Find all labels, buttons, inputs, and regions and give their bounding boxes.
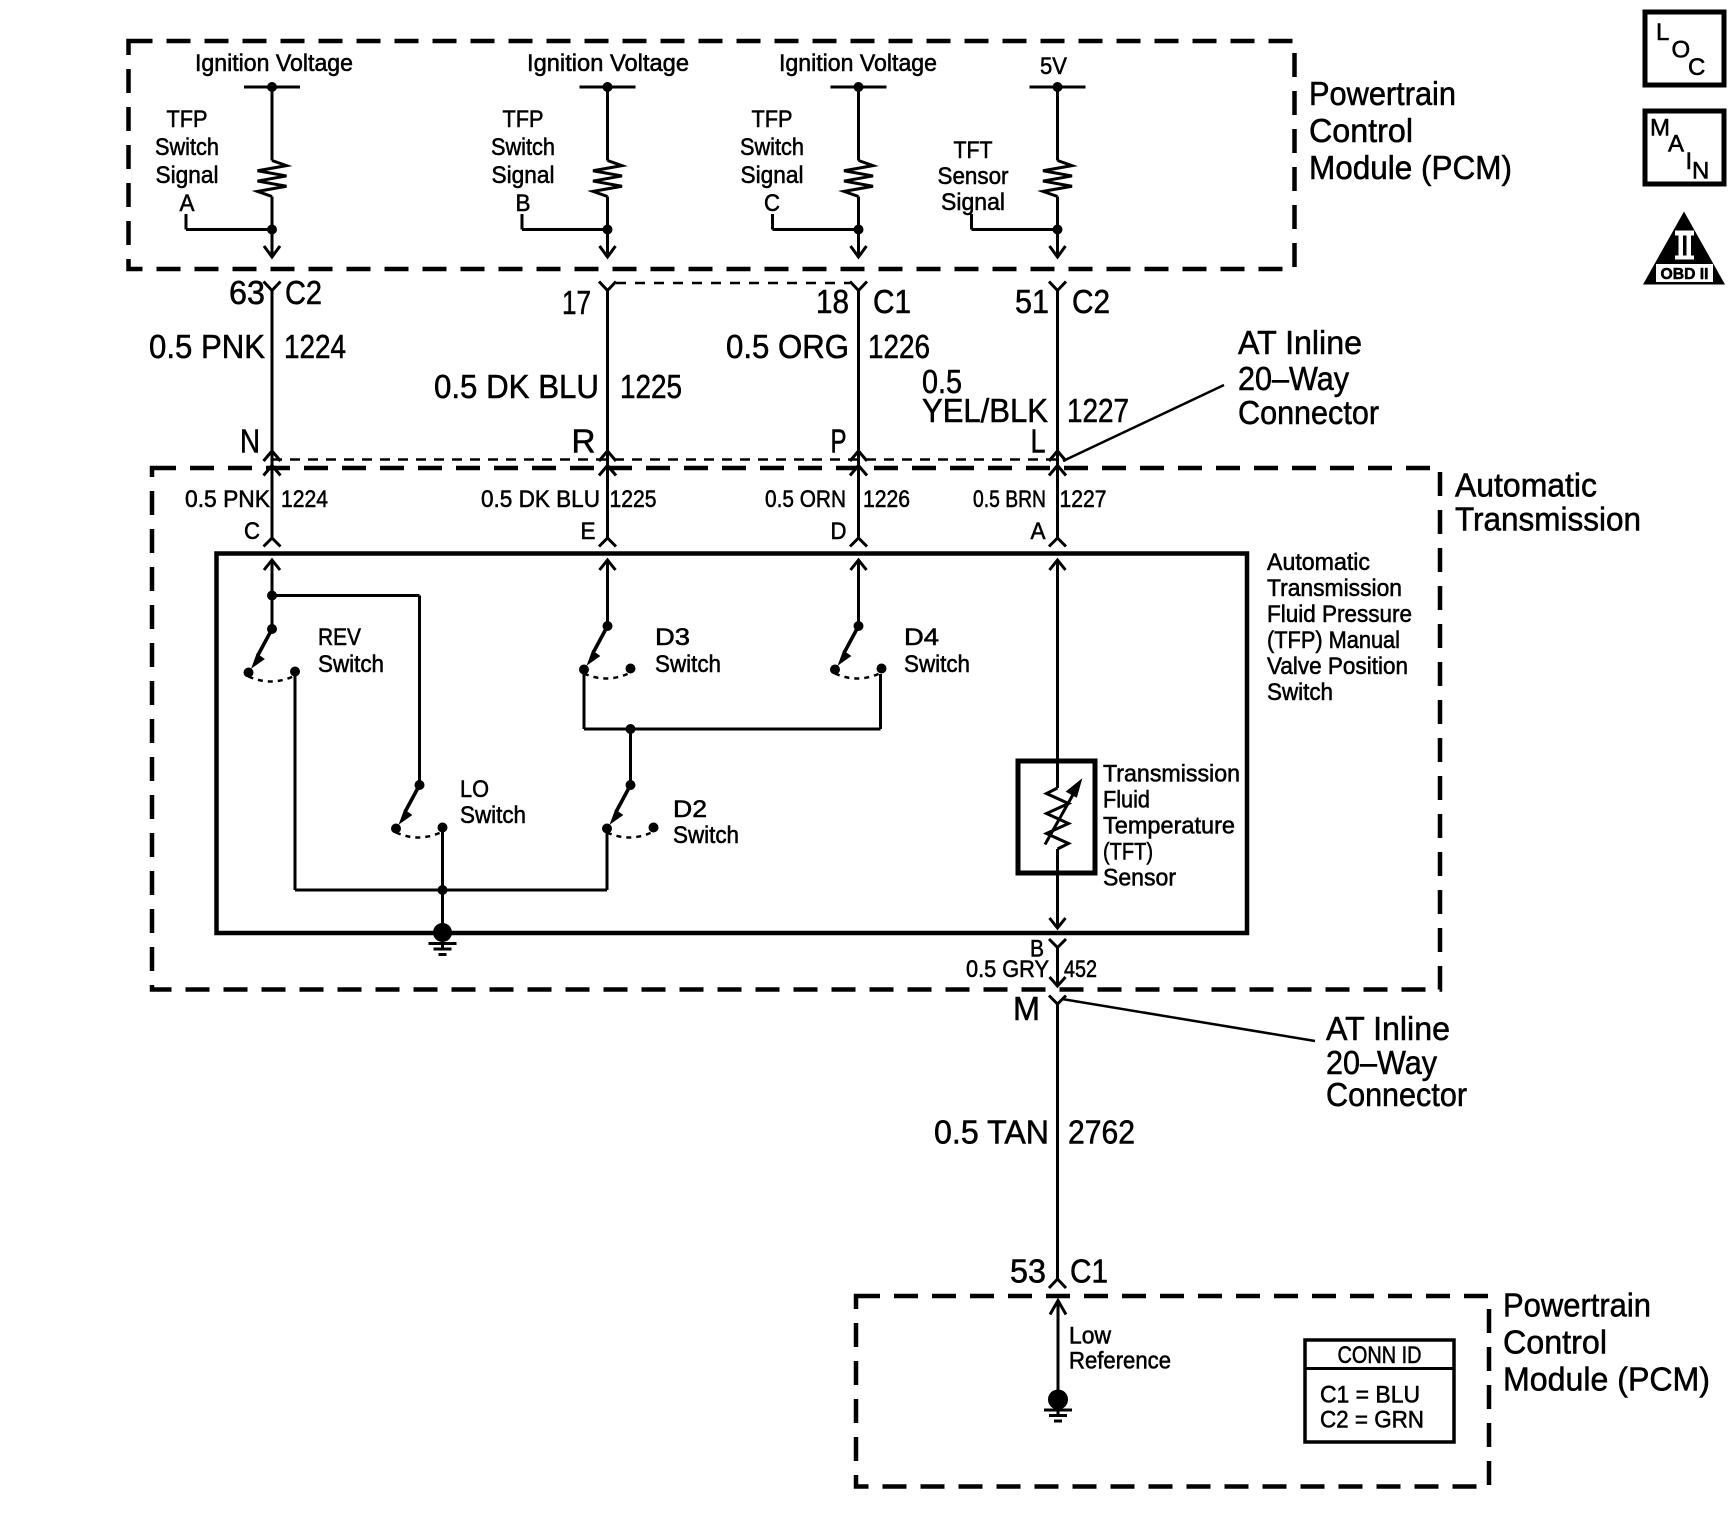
- svg-text:63: 63: [229, 274, 265, 311]
- svg-text:Fluid Pressure: Fluid Pressure: [1267, 601, 1412, 628]
- svg-text:D3: D3: [655, 624, 690, 651]
- svg-text:Sensor: Sensor: [1103, 865, 1176, 892]
- svg-text:D2: D2: [673, 796, 707, 823]
- svg-text:CONN ID: CONN ID: [1338, 1342, 1422, 1369]
- svg-text:N: N: [240, 423, 260, 460]
- svg-text:TFT: TFT: [954, 137, 993, 164]
- svg-text:C: C: [764, 190, 780, 217]
- svg-text:Automatic: Automatic: [1455, 467, 1597, 504]
- svg-text:Switch: Switch: [1267, 679, 1333, 706]
- svg-text:TFP: TFP: [752, 106, 793, 133]
- svg-text:Signal: Signal: [941, 189, 1005, 216]
- svg-text:0.5 ORN: 0.5 ORN: [765, 486, 846, 513]
- svg-text:(TFP) Manual: (TFP) Manual: [1267, 627, 1400, 654]
- svg-text:Signal: Signal: [156, 162, 219, 189]
- svg-text:Signal: Signal: [492, 162, 555, 189]
- svg-text:Transmission: Transmission: [1103, 761, 1240, 788]
- svg-text:Sensor: Sensor: [938, 163, 1009, 190]
- svg-text:Low: Low: [1069, 1323, 1112, 1350]
- svg-text:Switch: Switch: [904, 651, 970, 678]
- svg-text:1224: 1224: [281, 486, 328, 513]
- svg-text:20–Way: 20–Way: [1238, 360, 1349, 397]
- svg-text:YEL/BLK: YEL/BLK: [922, 392, 1048, 429]
- svg-text:1225: 1225: [620, 368, 682, 405]
- svg-text:Automatic: Automatic: [1267, 549, 1370, 576]
- svg-text:AT Inline: AT Inline: [1326, 1010, 1450, 1047]
- svg-text:D4: D4: [904, 624, 939, 651]
- svg-text:Transmission: Transmission: [1267, 575, 1402, 602]
- svg-text:0.5 GRY: 0.5 GRY: [966, 956, 1049, 983]
- svg-text:Valve Position: Valve Position: [1267, 653, 1408, 680]
- svg-text:1224: 1224: [284, 328, 346, 365]
- svg-text:Transmission: Transmission: [1455, 501, 1641, 538]
- svg-text:C2 = GRN: C2 = GRN: [1320, 1407, 1424, 1434]
- svg-text:L: L: [1656, 19, 1669, 46]
- svg-text:Switch: Switch: [491, 134, 555, 161]
- svg-text:Module (PCM): Module (PCM): [1309, 149, 1512, 186]
- svg-text:2762: 2762: [1068, 1114, 1135, 1151]
- svg-text:C2: C2: [285, 274, 322, 311]
- svg-text:1226: 1226: [863, 486, 910, 513]
- svg-text:C1: C1: [873, 283, 911, 320]
- svg-text:0.5 TAN: 0.5 TAN: [934, 1114, 1049, 1151]
- svg-text:1227: 1227: [1060, 486, 1107, 513]
- svg-text:Switch: Switch: [740, 134, 804, 161]
- svg-text:Switch: Switch: [460, 802, 526, 829]
- svg-text:C1: C1: [1070, 1253, 1108, 1290]
- svg-text:C: C: [244, 518, 260, 545]
- svg-text:Temperature: Temperature: [1103, 813, 1235, 840]
- svg-text:A: A: [1031, 518, 1046, 545]
- svg-text:Reference: Reference: [1069, 1348, 1171, 1375]
- svg-text:A: A: [180, 190, 195, 217]
- svg-text:TFP: TFP: [503, 106, 544, 133]
- svg-text:(TFT): (TFT): [1103, 839, 1153, 866]
- svg-text:Module (PCM): Module (PCM): [1503, 1361, 1710, 1398]
- svg-text:1225: 1225: [610, 486, 657, 513]
- svg-text:Switch: Switch: [673, 822, 739, 849]
- svg-text:0.5 PNK: 0.5 PNK: [185, 486, 270, 513]
- svg-text:51: 51: [1015, 283, 1049, 320]
- svg-text:Ignition Voltage: Ignition Voltage: [527, 50, 689, 77]
- svg-text:53: 53: [1010, 1253, 1046, 1290]
- svg-text:Switch: Switch: [318, 651, 384, 678]
- svg-text:Fluid: Fluid: [1103, 787, 1150, 814]
- svg-text:Powertrain: Powertrain: [1309, 75, 1456, 112]
- svg-text:C: C: [1688, 54, 1705, 81]
- svg-text:C2: C2: [1072, 283, 1110, 320]
- svg-text:Powertrain: Powertrain: [1503, 1287, 1651, 1324]
- svg-text:Ignition Voltage: Ignition Voltage: [779, 50, 937, 77]
- svg-text:OBD II: OBD II: [1661, 266, 1709, 283]
- svg-text:E: E: [581, 518, 596, 545]
- svg-text:0.5 ORG: 0.5 ORG: [726, 328, 849, 365]
- svg-text:L: L: [1031, 423, 1046, 460]
- svg-text:C1 = BLU: C1 = BLU: [1320, 1382, 1420, 1409]
- svg-text:Switch: Switch: [655, 651, 721, 678]
- svg-text:18: 18: [816, 283, 849, 320]
- svg-text:A: A: [1668, 131, 1684, 158]
- svg-text:17: 17: [562, 284, 591, 321]
- svg-text:452: 452: [1064, 956, 1097, 983]
- svg-text:M: M: [1650, 115, 1670, 142]
- svg-text:R: R: [572, 423, 596, 460]
- svg-text:0.5 DK BLU: 0.5 DK BLU: [434, 368, 599, 405]
- svg-text:B: B: [516, 190, 531, 217]
- svg-text:N: N: [1692, 158, 1709, 185]
- svg-text:0.5 DK BLU: 0.5 DK BLU: [481, 486, 600, 513]
- svg-text:0.5 PNK: 0.5 PNK: [149, 328, 265, 365]
- svg-text:D: D: [831, 518, 847, 545]
- svg-text:5V: 5V: [1040, 53, 1067, 80]
- svg-text:REV: REV: [318, 624, 361, 651]
- svg-text:LO: LO: [460, 776, 489, 803]
- svg-text:Control: Control: [1503, 1324, 1607, 1361]
- svg-text:Connector: Connector: [1326, 1076, 1467, 1113]
- svg-text:0.5 BRN: 0.5 BRN: [973, 486, 1046, 513]
- svg-text:1227: 1227: [1067, 392, 1129, 429]
- svg-text:1226: 1226: [868, 328, 930, 365]
- svg-text:Ignition Voltage: Ignition Voltage: [195, 50, 353, 77]
- svg-text:Signal: Signal: [741, 162, 804, 189]
- svg-text:P: P: [831, 423, 847, 460]
- svg-text:AT Inline: AT Inline: [1238, 324, 1362, 361]
- svg-text:M: M: [1013, 990, 1040, 1027]
- svg-text:Control: Control: [1309, 112, 1413, 149]
- svg-text:Switch: Switch: [155, 134, 219, 161]
- svg-text:Connector: Connector: [1238, 394, 1379, 431]
- svg-text:TFP: TFP: [167, 106, 208, 133]
